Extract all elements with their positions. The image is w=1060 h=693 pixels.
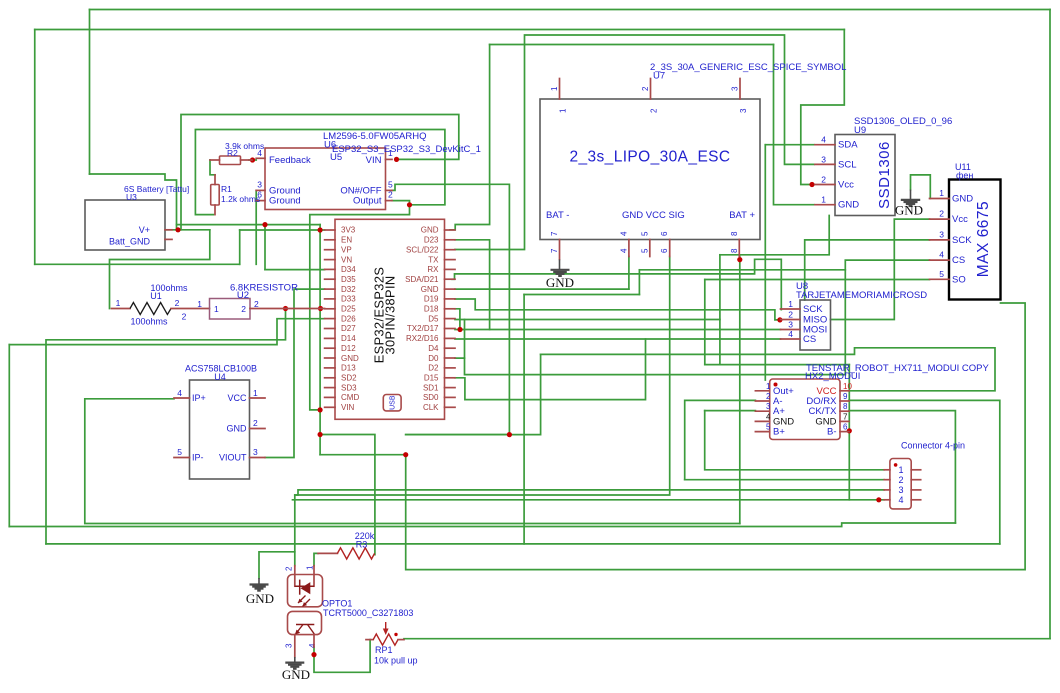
svg-text:Vcc: Vcc: [838, 180, 854, 191]
svg-text:U7: U7: [653, 71, 665, 82]
svg-text:Ground: Ground: [269, 196, 301, 207]
microcontroller ESP32/ESP32S 30PIN/38PIN: [325, 219, 455, 419]
svg-text:RX2/D16: RX2/D16: [406, 334, 439, 343]
wire B- down: [848, 431, 850, 500]
svg-text:B-: B-: [827, 427, 837, 438]
wire 3V3 rail left drop: [239, 230, 241, 264]
wire MAX CS: [845, 260, 929, 375]
junction 5V a: [318, 432, 323, 437]
HX711 pin CK/TX (right): [840, 410, 849, 412]
svg-text:2_3s_LIPO_30A_ESC: 2_3s_LIPO_30A_ESC: [569, 149, 730, 166]
wire R2 to R1: [210, 160, 215, 175]
junction conn pin4: [876, 497, 881, 502]
svg-text:VIN: VIN: [341, 403, 355, 412]
pin D13 (left 15): [325, 367, 335, 369]
svg-text:U3: U3: [126, 192, 137, 202]
HX711 pin GND (left): [755, 420, 769, 422]
svg-text:ESP32_S3_ESP32_S3_DevKitC_1: ESP32_S3_ESP32_S3_DevKitC_1: [332, 144, 481, 155]
svg-text:2: 2: [175, 298, 180, 308]
svg-text:5: 5: [939, 269, 944, 279]
pin SD3 (left 17): [325, 387, 335, 389]
load cell amp HX2_MODUI TENSTAR HX711: [755, 363, 989, 440]
wire B- feed: [848, 365, 850, 431]
svg-text:GND: GND: [421, 226, 439, 235]
svg-text:D35: D35: [341, 275, 356, 284]
wire SO drop: [704, 280, 706, 365]
svg-text:4: 4: [821, 135, 826, 145]
pin D4 (right 13): [445, 347, 456, 349]
svg-text:3: 3: [257, 180, 262, 190]
wire RX-row drop: [638, 270, 640, 295]
wire D18 drop: [455, 309, 460, 330]
wire LM2596 grounds: [255, 190, 257, 264]
svg-text:GND: GND: [895, 203, 923, 218]
wire upper rail: [177, 224, 321, 226]
svg-text:2: 2: [650, 108, 659, 113]
wire left bus y264: [35, 263, 240, 265]
OPTO1 phototransistor half: [285, 611, 322, 657]
pin D18 (right 9): [445, 308, 456, 310]
svg-text:GND: GND: [341, 354, 359, 363]
wire 5V to HX711 VCC: [541, 348, 995, 391]
svg-text:7: 7: [550, 231, 559, 236]
svg-text:CMD: CMD: [341, 393, 359, 402]
svg-text:D33: D33: [341, 295, 356, 304]
svg-text:SD3: SD3: [341, 383, 357, 392]
svg-text:2: 2: [254, 299, 259, 309]
wire Vcc left edge down: [34, 30, 36, 265]
resistor U1 100ohms: [112, 283, 210, 327]
wire rail drop x265: [264, 225, 266, 270]
svg-text:5: 5: [388, 180, 393, 190]
connector 4-pin: [884, 441, 965, 509]
HX711 pin B+ (left): [755, 431, 769, 433]
svg-text:VIN: VIN: [366, 155, 382, 166]
wire SSD box stub row: [720, 216, 829, 255]
wire conn3: [295, 490, 884, 495]
pin D12 (left 13): [325, 347, 335, 349]
svg-text:D25: D25: [341, 305, 356, 314]
wire LM2596 output: [392, 201, 410, 205]
pin TX2/D17 (right 11): [445, 328, 456, 330]
pin D15 (right 16): [445, 377, 456, 379]
wire D23: [455, 240, 490, 330]
pin CLK (right 19): [445, 406, 456, 408]
svg-text:8: 8: [843, 402, 848, 411]
HX711 pin GND (right): [840, 420, 849, 422]
junction 3V3 pin: [318, 227, 323, 232]
pin D35 (left 6): [325, 278, 335, 280]
pin D2 (right 15): [445, 367, 456, 369]
junction TX2 pin: [457, 327, 462, 332]
wire V+ left edge down: [89, 10, 91, 175]
ground symbol MAX6675: [895, 190, 923, 218]
svg-text:D19: D19: [424, 295, 439, 304]
svg-text:SCK: SCK: [952, 235, 972, 246]
HX711 pin B- (right): [840, 431, 849, 433]
svg-text:6: 6: [660, 231, 669, 236]
svg-text:VN: VN: [341, 255, 352, 264]
junction HX B-: [847, 428, 852, 433]
wire row B: [705, 364, 850, 366]
svg-text:1: 1: [559, 108, 568, 113]
wire to SSD1306 GND: [774, 45, 815, 205]
svg-text:2: 2: [821, 175, 826, 185]
wire VIOUT: [265, 289, 325, 457]
svg-text:3: 3: [898, 485, 903, 495]
ESC U7 2_3s_LIPO_30A_ESC: [540, 62, 846, 257]
MAX6675 pin CS: [930, 259, 950, 261]
wire VIN down: [319, 410, 321, 455]
wire V+ to LM2596 VIN: [181, 115, 459, 230]
svg-text:10: 10: [843, 382, 852, 391]
junction upper rail: [262, 222, 267, 227]
svg-text:7: 7: [843, 412, 848, 421]
wire RX2 to SD CS: [455, 338, 781, 340]
wire D15 run: [455, 339, 646, 400]
pin GND (left 14): [325, 357, 335, 359]
ground symbol ESC BAT-: [546, 240, 574, 291]
MAX6675 pin SO: [930, 278, 950, 280]
svg-text:SSD1306_OLED_0_96: SSD1306_OLED_0_96: [854, 116, 952, 127]
svg-text:8: 8: [730, 231, 739, 236]
resistor R1 1.2k ohms: [211, 175, 261, 215]
pin VIN (left 19): [325, 406, 335, 408]
connector pin 1: [884, 469, 890, 471]
wire E top: [490, 44, 774, 46]
pin D14 (left 12): [325, 337, 335, 339]
MAX6675 pin GND: [930, 198, 950, 200]
ESC bottom pin 4: [628, 240, 630, 257]
svg-text:4: 4: [939, 250, 944, 260]
svg-text:6: 6: [660, 248, 669, 253]
wire 5V to R3: [320, 435, 375, 555]
wire to D34: [265, 269, 325, 271]
svg-text:1: 1: [898, 465, 903, 475]
svg-text:4: 4: [898, 495, 903, 505]
junction OPTO pin4: [311, 652, 316, 657]
ESC top pin 3: [739, 79, 741, 100]
svg-text:6: 6: [843, 423, 848, 432]
ESC top pin 1: [559, 79, 561, 100]
svg-text:7: 7: [550, 248, 559, 253]
svg-text:CS: CS: [803, 334, 816, 345]
wire ON-OFF join: [406, 434, 510, 436]
svg-text:RP1: RP1: [375, 645, 393, 655]
wire D0 run to MAX CS: [465, 358, 846, 375]
wire ESC SIG down: [295, 257, 670, 552]
wire 3V3-VIN vertical: [319, 230, 321, 410]
junction R2 feedback: [250, 157, 255, 162]
pin SD2 (left 16): [325, 377, 335, 379]
svg-text:USB: USB: [390, 395, 397, 410]
svg-text:VCC: VCC: [227, 393, 247, 403]
svg-text:2: 2: [641, 86, 650, 91]
svg-text:2_3S_30A_GENERIC_ESC_SPICE_SYM: 2_3S_30A_GENERIC_ESC_SPICE_SYMBOL: [650, 62, 846, 73]
pin SDA/D21 (right 6): [445, 278, 456, 280]
svg-text:10k pull up: 10k pull up: [374, 656, 418, 666]
pin RX2/D16 (right 12): [445, 337, 456, 339]
svg-text:1: 1: [550, 86, 559, 91]
svg-text:4: 4: [177, 388, 182, 398]
pin RX (right 5): [445, 268, 456, 270]
svg-text:2: 2: [182, 312, 187, 322]
svg-text:D23: D23: [424, 236, 439, 245]
svg-text:1: 1: [766, 382, 771, 391]
battery U3 6S Battery [Tattu]: [85, 184, 189, 250]
pin D26 (left 10): [325, 318, 335, 320]
wire MAX SCK: [805, 240, 930, 300]
wire SCL: [455, 35, 814, 250]
svg-text:3: 3: [731, 86, 740, 91]
wire HX DO/RX feed: [849, 400, 1000, 544]
svg-text:3: 3: [766, 402, 771, 411]
svg-text:Feedback: Feedback: [269, 155, 311, 166]
svg-text:B+: B+: [773, 427, 785, 438]
wire SDA-D21 run: [452, 259, 781, 309]
wire HX A+: [705, 410, 756, 412]
svg-text:100ohms: 100ohms: [130, 317, 168, 327]
HX711 pin Out+ (left): [755, 390, 769, 392]
svg-text:1: 1: [939, 188, 944, 198]
ESC bottom pin 8: [738, 240, 740, 257]
svg-text:TX: TX: [428, 255, 439, 264]
wire RP1 right to right edge: [404, 638, 1050, 640]
HX711 pin DO/RX (right): [840, 400, 849, 402]
svg-text:RX: RX: [427, 265, 439, 274]
svg-text:CLK: CLK: [423, 403, 439, 412]
svg-text:2: 2: [766, 392, 771, 401]
svg-text:GND: GND: [227, 424, 248, 434]
svg-text:IP+: IP+: [192, 393, 206, 403]
junction V+ battery: [175, 227, 180, 232]
svg-text:OPTO1: OPTO1: [322, 599, 352, 609]
wire TX2 to SD MOSI: [455, 329, 781, 331]
svg-text:R3: R3: [356, 540, 368, 550]
junction ESP32 VIN pin: [318, 407, 323, 412]
svg-text:SD2: SD2: [341, 373, 357, 382]
current sensor U4 ACS758LCB100B: [174, 364, 265, 480]
svg-text:D15: D15: [424, 373, 439, 382]
pin GND (right 1): [445, 229, 456, 231]
svg-text:3: 3: [253, 447, 258, 457]
wire conn2 run: [685, 479, 885, 481]
junction ESC BAT+: [737, 257, 742, 262]
svg-text:2: 2: [253, 418, 258, 428]
wire V+ staircase to battery: [90, 174, 177, 230]
wire D0 link: [455, 320, 465, 359]
wire RX row: [639, 269, 845, 271]
svg-text:SD0: SD0: [423, 393, 439, 402]
wire HX CK/TX feed: [849, 411, 955, 523]
svg-text:D2: D2: [428, 364, 439, 373]
svg-text:Vcc: Vcc: [952, 214, 968, 225]
svg-text:30PIN/38PIN: 30PIN/38PIN: [383, 275, 398, 354]
pin D25 (left 9): [325, 308, 335, 310]
svg-text:SCL: SCL: [838, 159, 856, 170]
wire Vcc right descent: [801, 30, 845, 185]
junction LM2596 VIN: [394, 157, 399, 162]
wire output to feedback divider: [195, 130, 445, 215]
svg-text:8: 8: [730, 248, 739, 253]
wire GND long run: [46, 543, 1000, 545]
U8 pin CS: [781, 338, 801, 340]
wire R2 feedback: [249, 159, 256, 161]
svg-text:GND: GND: [838, 200, 859, 211]
svg-text:SSD1306: SSD1306: [876, 141, 893, 209]
svg-text:D18: D18: [424, 305, 439, 314]
svg-text:VIOUT: VIOUT: [219, 453, 247, 463]
svg-text:SDA: SDA: [838, 140, 858, 151]
wire conn1 from A+: [705, 411, 885, 470]
pin D34 (left 5): [325, 268, 335, 270]
svg-text:2: 2: [241, 304, 246, 314]
wire left bus 2 bottom: [9, 523, 955, 527]
wire upper rail link: [319, 225, 321, 230]
svg-text:CS: CS: [952, 255, 965, 266]
svg-text:SD1: SD1: [423, 383, 439, 392]
ground symbol OPTO pin3: [282, 657, 310, 682]
junction output: [407, 202, 412, 207]
pin CMD (left 18): [325, 396, 335, 398]
svg-text:4: 4: [788, 329, 793, 339]
wire left bus 2 vert: [8, 345, 10, 527]
svg-text:SDA/D21: SDA/D21: [405, 275, 439, 284]
pin D0 (right 14): [445, 357, 456, 359]
ESC bottom pin 5: [649, 240, 651, 257]
pin TX (right 4): [445, 259, 456, 261]
svg-text:Connector 4-pin: Connector 4-pin: [901, 441, 965, 451]
svg-text:SO: SO: [952, 274, 966, 285]
HX711 pin A- (left): [755, 400, 769, 402]
svg-text:GND: GND: [282, 667, 310, 682]
connector pin 4: [884, 499, 890, 501]
svg-text:D32: D32: [341, 285, 356, 294]
wire GND2 run: [455, 288, 629, 290]
thermocouple U11 MAX 6675: [930, 162, 1001, 300]
potentiometer RP1 10k pull up: [366, 622, 418, 666]
pin D19 (right 8): [445, 298, 456, 300]
svg-text:D12: D12: [341, 344, 356, 353]
svg-text:D4: D4: [428, 344, 439, 353]
svg-text:GND: GND: [546, 275, 574, 290]
HX711 pin VCC (right): [840, 390, 849, 392]
svg-text:1: 1: [197, 299, 202, 309]
svg-text:BAT +: BAT +: [729, 210, 755, 221]
svg-text:EN: EN: [341, 236, 352, 245]
svg-text:1: 1: [214, 304, 219, 314]
U8 pin MISO: [781, 319, 801, 321]
wire ESP32 GND jog: [450, 45, 490, 230]
svg-text:TCRT5000_C3271803: TCRT5000_C3271803: [323, 608, 413, 618]
resistor R3 220k: [318, 531, 375, 559]
svg-text:1: 1: [306, 565, 315, 570]
svg-text:3V3: 3V3: [341, 226, 356, 235]
ground symbol OPTO pin2: [246, 578, 274, 606]
SSD1306 pin Vcc: [815, 184, 835, 186]
connector pin 2: [884, 479, 890, 481]
pin D32 (left 7): [325, 288, 335, 290]
wire mid GND bridge: [524, 294, 639, 296]
wire conn4 run: [293, 499, 885, 501]
svg-text:U4: U4: [214, 372, 226, 382]
wire top V+ rail: [90, 9, 1051, 11]
wire V+ right edge down: [1049, 10, 1051, 639]
wire row254 drop: [719, 255, 721, 365]
SSD1306 pin SCL: [815, 163, 835, 165]
MAX6675 pin Vcc: [930, 218, 950, 220]
wire D19 to SD SCK: [455, 299, 780, 320]
MAX6675 pin SCK: [930, 239, 950, 241]
wire 5V to dense: [406, 354, 541, 434]
svg-text:3: 3: [285, 643, 294, 648]
svg-text:D13: D13: [341, 364, 356, 373]
pin SD1 (right 17): [445, 387, 456, 389]
U8 pin SCK: [781, 308, 801, 310]
wire V+ down to 100ohm: [110, 230, 210, 309]
svg-text:4: 4: [308, 643, 317, 648]
pin GND (right 7): [445, 288, 456, 290]
svg-text:GND VCC SIG: GND VCC SIG: [622, 210, 685, 221]
wire OPTO pin2 to GND: [259, 552, 295, 578]
svg-text:U5: U5: [330, 152, 342, 163]
HX711 pin A+ (left): [755, 410, 769, 412]
svg-text:1: 1: [116, 298, 121, 308]
svg-text:1: 1: [253, 388, 258, 398]
svg-text:5: 5: [640, 248, 649, 253]
svg-text:HX2_MODUI: HX2_MODUI: [805, 371, 860, 382]
wire 3V3 rail: [240, 229, 325, 231]
svg-text:U2: U2: [237, 290, 249, 301]
svg-text:D34: D34: [341, 265, 356, 274]
svg-text:2: 2: [939, 209, 944, 219]
pin VP (left 3): [325, 249, 335, 251]
svg-text:GND: GND: [246, 591, 274, 606]
wire R3 to OPTO1 pin1: [314, 553, 318, 565]
svg-text:2: 2: [285, 566, 294, 571]
svg-text:LM2596-5.0FW05ARHQ: LM2596-5.0FW05ARHQ: [323, 131, 426, 142]
svg-text:VP: VP: [341, 245, 352, 254]
svg-text:3: 3: [739, 108, 748, 113]
junction 5V c: [507, 432, 512, 437]
resistor R2 3.9k ohms: [210, 141, 264, 165]
svg-text:MAX 6675: MAX 6675: [975, 201, 992, 277]
svg-text:D5: D5: [428, 314, 439, 323]
ESC bottom pin 6: [669, 240, 671, 257]
svg-text:Batt_GND: Batt_GND: [109, 237, 151, 247]
svg-text:2: 2: [898, 475, 903, 485]
svg-text:R1: R1: [221, 184, 232, 194]
svg-text:1.2k ohms: 1.2k ohms: [221, 194, 260, 204]
pin SD0 (right 18): [445, 396, 456, 398]
pin D33 (left 8): [325, 298, 335, 300]
USB connector box: [383, 395, 401, 411]
junction SD MISO: [777, 317, 782, 322]
wire MAX SO: [705, 279, 930, 281]
wire output to ESP32 VIN: [310, 205, 410, 410]
svg-text:U1: U1: [150, 291, 162, 301]
U8 pin MOSI: [781, 329, 801, 331]
svg-text:фен: фен: [956, 171, 973, 181]
microSD U8 TARJETAMEMORIAMICROSD: [781, 281, 928, 350]
pin D5 (right 10): [445, 318, 456, 320]
wire ESC pin4 drop: [628, 257, 630, 290]
junction D25 left: [283, 306, 288, 311]
svg-text:D27: D27: [341, 324, 356, 333]
svg-text:1: 1: [788, 299, 793, 309]
pin D23 (right 2): [445, 239, 456, 241]
pin EN (left 2): [325, 239, 335, 241]
